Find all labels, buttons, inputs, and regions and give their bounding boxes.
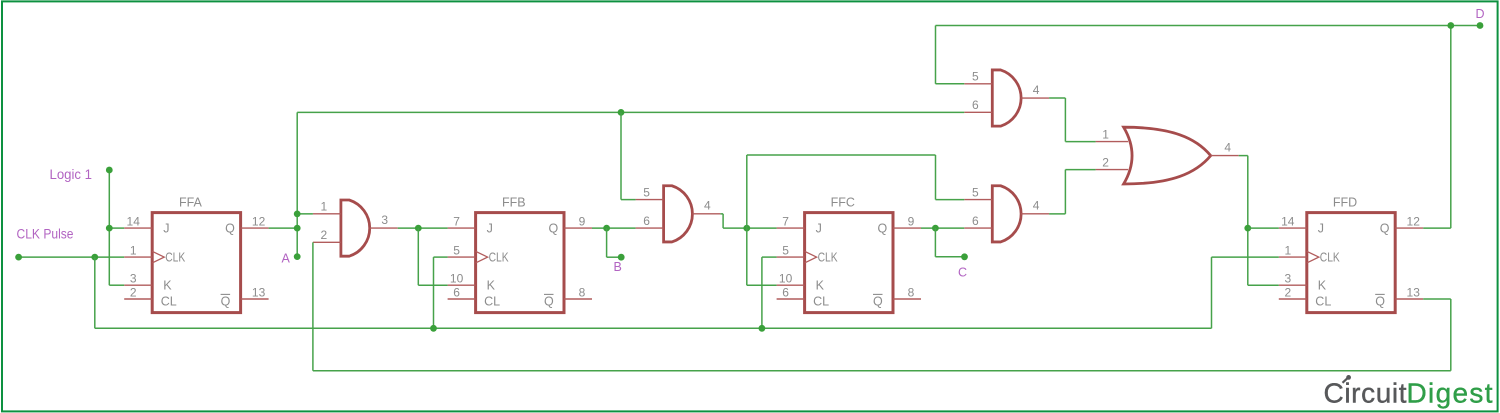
svg-text:Q: Q: [544, 294, 554, 308]
wire AND2 out corner: [720, 213, 723, 215]
junction D: [1447, 22, 1454, 29]
svg-text:2: 2: [1284, 285, 1291, 299]
svg-text:2: 2: [130, 285, 137, 299]
wire Logic1 to FFA K: [109, 284, 124, 286]
AND gate U2A (AND2) body: [664, 186, 693, 242]
svg-text:Digest: Digest: [1407, 378, 1493, 409]
wire D drop to AND3 pin5: [935, 26, 937, 84]
FFD pin 14 J stub: [1279, 227, 1307, 229]
junction AND1out/K branch: [415, 225, 422, 232]
junction top run / AND2 branch: [618, 109, 625, 116]
node CLK Pulse endpoint dot: [15, 254, 22, 261]
wire D top run: [936, 25, 1481, 27]
svg-text:CL: CL: [1315, 294, 1331, 308]
svg-text:5: 5: [972, 70, 979, 84]
wire into AND2 pin5: [621, 199, 636, 201]
FFC pin 10 K stub: [777, 284, 805, 286]
svg-text:CLK: CLK: [165, 250, 186, 264]
U1A (AND1) pin 2 stub: [313, 241, 341, 243]
wire CLK riser to FFC: [761, 257, 763, 328]
svg-text:C: C: [958, 266, 967, 280]
svg-text:K: K: [487, 279, 496, 293]
wire C drop: [934, 228, 936, 257]
svg-text:A: A: [282, 252, 291, 266]
svg-text:4: 4: [1224, 140, 1231, 154]
wire Qbar drop: [1450, 299, 1452, 371]
FFA pin 13 Qbar stub: [241, 298, 269, 300]
FFD pin 3 K stub: [1279, 284, 1307, 286]
svg-text:2: 2: [1102, 155, 1109, 169]
wire CLK drop: [94, 257, 96, 328]
svg-text:Q: Q: [225, 221, 235, 235]
svg-text:J: J: [816, 221, 822, 235]
svg-text:7: 7: [782, 215, 789, 229]
wire drop to AND2 pin5: [620, 112, 622, 199]
U2A (AND2) pin 4 output stub: [692, 213, 720, 215]
wire FFB Q to AND2 pin6: [592, 227, 636, 229]
svg-text:CLK Pulse: CLK Pulse: [17, 226, 74, 241]
wire down to AND4 pin5: [935, 155, 937, 200]
wire AND4 out: [1049, 213, 1065, 215]
svg-text:5: 5: [782, 244, 789, 258]
svg-text:Q: Q: [873, 294, 883, 308]
svg-text:1: 1: [130, 244, 137, 258]
U2B (AND3) pin 5 stub: [964, 83, 992, 85]
wire into FFD K: [1248, 284, 1279, 286]
svg-text:K: K: [1318, 279, 1327, 293]
svg-text:CLK: CLK: [1320, 250, 1341, 264]
junction Logic1/J: [106, 225, 113, 232]
svg-text:Logic 1: Logic 1: [50, 167, 93, 182]
svg-text:1: 1: [1284, 244, 1291, 258]
wire OR out: [1239, 155, 1248, 157]
junction A/Q: [294, 225, 301, 232]
logo i accent stroke: [1343, 378, 1348, 382]
U2C (AND4) pin 6 stub: [964, 227, 992, 229]
wire AND2 out drop: [722, 214, 724, 228]
svg-text:13: 13: [1407, 285, 1421, 299]
FFA pin 3 K stub: [124, 284, 152, 286]
svg-text:Q: Q: [1375, 294, 1385, 308]
junction A/AND1: [294, 210, 301, 217]
wire CLK riser to FFD: [1211, 257, 1213, 328]
wire drop to FFB K: [417, 228, 419, 285]
logo i accent dot: [1346, 375, 1351, 380]
wire AND3 out drop: [1064, 98, 1066, 142]
wire CLK into FFC: [762, 256, 777, 258]
svg-text:FFA: FFA: [179, 196, 203, 210]
svg-text:J: J: [163, 221, 169, 235]
wire AND1 out to FFB J: [398, 227, 448, 229]
svg-text:7: 7: [453, 215, 460, 229]
wire FFD Qbar out: [1423, 298, 1451, 300]
FFB pin 9 Q stub: [564, 227, 592, 229]
FFC pin 8 Qbar stub: [893, 298, 921, 300]
wire into AND3 pin5: [936, 83, 965, 85]
U2B (AND3) pin 4 output stub: [1021, 97, 1049, 99]
FFC pin 9 Q stub: [893, 227, 921, 229]
FFA pin 1 CLK stub: [124, 256, 152, 258]
FFB CLK edge triangle: [476, 251, 488, 263]
svg-text:CLK: CLK: [818, 250, 839, 264]
wire FFC Q to AND4 pin6: [921, 227, 964, 229]
svg-text:6: 6: [972, 98, 979, 112]
svg-text:J: J: [1318, 221, 1324, 235]
svg-text:3: 3: [130, 272, 137, 286]
U2C (AND4) pin 4 output stub: [1021, 213, 1049, 215]
wire CLK bottom bus: [95, 327, 1212, 329]
junction CLK branch: [91, 254, 98, 261]
svg-text:9: 9: [908, 215, 915, 229]
OR gate U3A body: [1124, 127, 1211, 184]
svg-text:Q: Q: [878, 221, 888, 235]
wire into AND4 pin5: [936, 199, 965, 201]
node Logic1 endpoint dot: [106, 167, 113, 174]
wire Qbar riser to AND1 pin2: [312, 242, 314, 370]
wire OR out drop: [1247, 156, 1249, 286]
junction CLK/FFB: [430, 325, 437, 332]
svg-text:5: 5: [453, 244, 460, 258]
wire FFD Q out: [1423, 227, 1451, 229]
svg-text:12: 12: [1407, 215, 1421, 229]
wire Qbar bottom bus: [313, 370, 1451, 372]
node A endpoint dot: [294, 253, 301, 260]
FFA pin 12 Q stub: [241, 227, 269, 229]
FFB pin 5 CLK stub: [448, 256, 476, 258]
svg-text:8: 8: [579, 285, 586, 299]
FFB pin 6 CL stub: [448, 298, 476, 300]
FFC pin 7 J stub: [777, 227, 805, 229]
junction B: [603, 225, 610, 232]
svg-text:CLK: CLK: [489, 250, 510, 264]
junction FFC J node: [743, 225, 750, 232]
FFD pin 2 CL stub: [1279, 298, 1307, 300]
svg-text:1: 1: [321, 200, 328, 214]
FFC CLK edge triangle: [805, 251, 817, 263]
svg-text:CL: CL: [161, 294, 177, 308]
wire AND2 out to FFC J: [723, 227, 777, 229]
svg-text:3: 3: [381, 213, 388, 227]
svg-text:FFC: FFC: [831, 196, 855, 210]
FFA pin 2 CL stub: [124, 298, 152, 300]
wire A top run to AND3 pin6: [297, 111, 964, 113]
FFA Qbar overline: [221, 293, 231, 295]
wire CLK riser to FFB: [433, 257, 435, 328]
svg-text:K: K: [163, 279, 172, 293]
svg-text:14: 14: [1281, 215, 1295, 229]
flip-flop FFC body: [805, 213, 893, 313]
svg-text:1: 1: [1102, 127, 1109, 141]
node D endpoint dot: [1477, 22, 1484, 29]
svg-text:D: D: [1476, 7, 1485, 21]
wire AND3 out: [1049, 97, 1065, 99]
U2C (AND4) pin 5 stub: [964, 199, 992, 201]
wire into AND1 pin1: [297, 213, 313, 215]
svg-text:J: J: [487, 221, 493, 235]
FFD pin 12 Q stub: [1395, 227, 1423, 229]
wire FFA Q out: [269, 227, 298, 229]
svg-text:FFD: FFD: [1333, 196, 1357, 210]
FFC pin 5 CLK stub: [777, 256, 805, 258]
AND gate U2C (AND4) body: [992, 186, 1021, 242]
U2A (AND2) pin 5 stub: [636, 199, 664, 201]
svg-text:10: 10: [450, 272, 464, 286]
svg-text:2: 2: [321, 228, 328, 242]
FFD Qbar overline: [1375, 293, 1385, 295]
svg-text:B: B: [614, 260, 622, 274]
svg-text:4: 4: [704, 199, 711, 213]
wire into OR pin2: [1065, 169, 1095, 171]
svg-text:4: 4: [1033, 199, 1040, 213]
junction C: [932, 225, 939, 232]
svg-text:CL: CL: [484, 294, 500, 308]
flip-flop FFA body: [152, 213, 240, 313]
svg-text:6: 6: [972, 214, 979, 228]
wire Logic1 to FFA J: [109, 227, 124, 229]
svg-text:8: 8: [908, 285, 915, 299]
OR gate pin 1 stub: [1096, 141, 1129, 143]
svg-text:6: 6: [453, 285, 460, 299]
wire C stub: [935, 256, 964, 258]
svg-text:FFB: FFB: [502, 196, 526, 210]
FFC Qbar overline: [873, 293, 883, 295]
AND gate U2B (AND3) body: [992, 70, 1021, 126]
svg-text:5: 5: [643, 185, 650, 199]
AND gate U1A (AND1) body: [341, 200, 370, 256]
svg-text:3: 3: [1284, 272, 1291, 286]
FFA pin 14 J stub: [124, 227, 152, 229]
FFB pin 10 K stub: [448, 284, 476, 286]
FFB pin 8 Qbar stub: [564, 298, 592, 300]
wire CLK into FFB: [434, 256, 448, 258]
wire D riser: [1450, 26, 1452, 229]
svg-text:Circuit: Circuit: [1324, 378, 1407, 409]
U2A (AND2) pin 6 stub: [636, 227, 664, 229]
FFD CLK edge triangle: [1307, 251, 1319, 263]
FFB pin 7 J stub: [448, 227, 476, 229]
wire into FFD J: [1248, 227, 1279, 229]
junction FFD J node: [1244, 225, 1251, 232]
FFD pin 13 Qbar stub: [1395, 298, 1423, 300]
wire B drop: [606, 228, 608, 257]
wire CLK into FFD: [1212, 256, 1279, 258]
svg-text:10: 10: [779, 272, 793, 286]
flip-flop FFB body: [476, 213, 564, 313]
wire into FFB K: [418, 284, 447, 286]
wire AND4 out rise: [1064, 170, 1066, 214]
FFA CLK edge triangle: [152, 251, 164, 263]
svg-text:12: 12: [252, 215, 266, 229]
wire into FFC K: [747, 284, 777, 286]
svg-text:Q: Q: [221, 294, 231, 308]
svg-text:14: 14: [127, 215, 141, 229]
flip-flop FFD body: [1307, 213, 1395, 313]
svg-text:Q: Q: [549, 221, 559, 235]
svg-text:K: K: [816, 279, 825, 293]
FFD pin 1 CLK stub: [1279, 256, 1307, 258]
svg-text:13: 13: [252, 285, 266, 299]
net A vertical: [296, 112, 298, 256]
FFB Qbar overline: [544, 293, 554, 295]
net Logic1 vertical wire: [108, 170, 110, 285]
svg-text:9: 9: [579, 215, 586, 229]
wire into OR pin1: [1065, 141, 1095, 143]
svg-text:6: 6: [643, 214, 650, 228]
svg-text:Q: Q: [1380, 221, 1390, 235]
OR gate pin 4 output stub: [1211, 155, 1239, 157]
svg-text:CL: CL: [813, 294, 829, 308]
U1A (AND1) pin 3 output stub: [370, 227, 398, 229]
node B endpoint dot: [618, 254, 625, 261]
node C endpoint dot: [961, 253, 968, 260]
wire over to AND4: [747, 154, 936, 156]
wire B stub: [607, 256, 622, 258]
net FFC-J vertical: [746, 155, 748, 285]
svg-text:4: 4: [1033, 83, 1040, 97]
FFC pin 6 CL stub: [777, 298, 805, 300]
OR gate pin 2 stub: [1096, 169, 1129, 171]
U1A (AND1) pin 1 stub: [313, 213, 341, 215]
svg-text:5: 5: [972, 185, 979, 199]
U2B (AND3) pin 6 stub: [964, 111, 992, 113]
wire CLK Pulse horizontal: [19, 256, 125, 258]
svg-text:6: 6: [782, 285, 789, 299]
junction CLK/FFC: [759, 325, 766, 332]
